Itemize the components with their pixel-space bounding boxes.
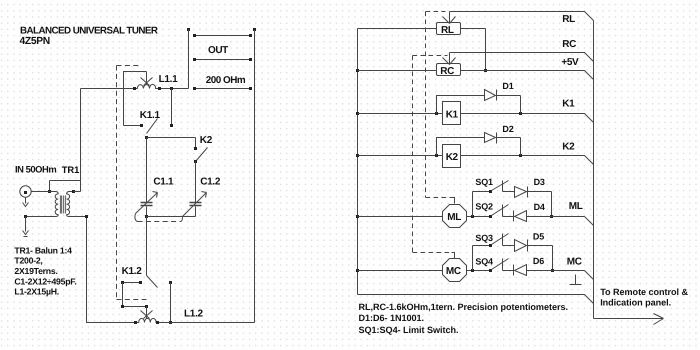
svg-text:SQ1:SQ4- Limit Switch.: SQ1:SQ4- Limit Switch. — [359, 325, 459, 335]
node L1.1 left — [133, 87, 136, 90]
inductor L1.2 — [136, 318, 158, 322]
switch K2 — [194, 147, 197, 150]
label C1.2 — [200, 176, 221, 187]
svg-text:TR1: TR1 — [62, 164, 79, 175]
label D4 — [534, 202, 545, 212]
svg-text:2X19Terns.: 2X19Terns. — [14, 266, 57, 276]
svg-text:RC: RC — [562, 39, 576, 50]
svg-text:+5V: +5V — [561, 57, 579, 68]
label K2 rail — [562, 142, 575, 153]
node L1.2 left — [134, 321, 137, 324]
wire MC rail bevel — [585, 271, 594, 280]
node TR1 primary top — [48, 190, 51, 193]
wire RL row left — [358, 28, 437, 30]
label D2 — [502, 124, 513, 134]
label L1.1 — [159, 74, 179, 85]
wire node to K2 — [147, 138, 196, 149]
svg-text:SQ1: SQ1 — [475, 177, 493, 187]
label D6 — [533, 256, 544, 266]
node bus-MC — [356, 269, 359, 272]
wire capacitor gang link — [135, 214, 138, 222]
label notes left — [14, 245, 76, 296]
node TR1 secondary top — [72, 190, 75, 193]
label SQ1 — [475, 177, 493, 187]
transformer TR1 primary winding — [26, 192, 59, 217]
wire MC right — [467, 270, 491, 272]
svg-text:K2: K2 — [200, 135, 213, 146]
svg-text:BALANCED UNIVERSAL TUNER: BALANCED UNIVERSAL TUNER — [20, 25, 158, 36]
inductor L1.1 — [135, 84, 160, 88]
switch K1.2 — [147, 276, 158, 288]
wire K1 rail — [461, 114, 594, 123]
source circle — [20, 186, 31, 197]
wire OUT ladder line 1 — [195, 35, 251, 37]
wire RL right to +5V — [461, 29, 486, 71]
svg-text:200 OHm: 200 OHm — [206, 75, 246, 86]
label TR1 — [62, 164, 79, 175]
wire D5 to MC rail — [552, 246, 554, 271]
switch SQ1 — [489, 190, 492, 193]
node C1 bottoms — [145, 215, 148, 218]
label L1.2 — [184, 308, 204, 319]
svg-text:D3: D3 — [534, 177, 545, 187]
label D3 — [534, 177, 545, 187]
svg-text:IN 50OHm: IN 50OHm — [15, 163, 56, 174]
node K1.2 right contact — [169, 281, 172, 284]
capacitor C1.1 — [141, 203, 153, 206]
wire K1.2 right contact down — [170, 283, 172, 323]
switch SQ4 — [489, 269, 492, 272]
label C1.1 — [153, 176, 174, 187]
label SQ2 — [475, 202, 493, 212]
wire RL rail — [450, 12, 594, 21]
svg-text:C1.2: C1.2 — [200, 176, 221, 187]
motor ML — [443, 205, 467, 228]
diode D6 — [503, 265, 585, 276]
label K2 — [200, 135, 213, 146]
node RL-5V — [484, 69, 487, 72]
potentiometer RL — [437, 23, 461, 35]
wire K2 to C1.2 — [195, 162, 197, 203]
node TR1 secondary bottom — [85, 215, 88, 218]
label MC rail — [567, 257, 582, 268]
svg-text:K2: K2 — [446, 152, 459, 163]
svg-text:D4: D4 — [534, 202, 545, 212]
wire SQ3 branch riser — [473, 246, 491, 271]
diode D5 — [503, 240, 553, 252]
wire K1.2 tap to L1.2 — [146, 307, 148, 319]
wire TR1 secondary top riser — [80, 89, 82, 192]
node K1 anode branch — [435, 112, 438, 115]
node wire junction above K1.1 — [170, 87, 173, 90]
svg-text:Indication panel.: Indication panel. — [600, 298, 671, 308]
diode D2 — [437, 133, 521, 156]
node OUT right terminal — [253, 28, 256, 31]
switch SQ2 — [489, 215, 492, 218]
svg-text:K2: K2 — [562, 142, 575, 153]
label RL rail — [562, 14, 575, 25]
wire OUT ladder line 2 — [195, 59, 251, 61]
node ML junction — [471, 215, 474, 218]
svg-text:SQ4: SQ4 — [475, 256, 493, 266]
svg-text:RL: RL — [441, 25, 454, 36]
svg-text:C1-2X12÷495pF.: C1-2X12÷495pF. — [14, 276, 76, 286]
node K1 cathode branch — [519, 112, 522, 115]
wire D3 to ML rail — [551, 192, 553, 217]
ground arrow primary bottom — [23, 217, 29, 237]
wire OUT right rail down to L1.2 — [254, 30, 256, 323]
relay coil K2 — [443, 145, 461, 168]
svg-text:D1: D1 — [502, 81, 513, 91]
label RC rail — [562, 39, 576, 50]
wire MC row left — [358, 270, 443, 272]
node D3-D4 — [550, 215, 553, 218]
svg-text:4Z5PN: 4Z5PN — [20, 36, 50, 47]
capacitor C1.2 — [190, 203, 202, 206]
wire source to TR1 — [32, 191, 50, 193]
svg-text:L1-2X15µH.: L1-2X15µH. — [14, 287, 59, 297]
svg-text:L1.2: L1.2 — [184, 308, 204, 319]
wire balanced line bottom — [87, 217, 255, 323]
wire L1.1 tap box — [124, 72, 147, 126]
transformer TR1 core — [61, 196, 66, 214]
svg-text:T200-2,: T200-2, — [14, 256, 42, 266]
wire remote bus — [593, 21, 595, 319]
label ML rail — [569, 201, 583, 212]
wire C1.1 down to K1.2 — [146, 217, 148, 276]
wire K1 row left — [358, 113, 443, 115]
node K1.1 output — [145, 136, 148, 139]
diode D3 — [503, 187, 552, 198]
ground symbol — [570, 275, 582, 285]
wire balanced line top (TR1 to L1.1) — [81, 88, 135, 90]
wire ML row left — [358, 216, 443, 218]
svg-text:K1.2: K1.2 — [122, 266, 143, 277]
svg-text:RL,RC-1.6kOHm,1tern. Precision: RL,RC-1.6kOHm,1tern. Precision potentiom… — [359, 302, 568, 312]
wire C1.1 slider arrow — [136, 192, 158, 214]
wire TR1 secondary top lead — [74, 191, 81, 193]
wire C1 bottom tie — [147, 216, 196, 218]
diode D1 — [437, 90, 521, 114]
wire relay K1 mechanical link (dashed) — [117, 66, 147, 300]
svg-text:ML: ML — [447, 212, 461, 223]
node K2 cathode branch — [519, 154, 522, 157]
label To Remote control — [600, 287, 688, 307]
svg-text:MC: MC — [446, 266, 461, 277]
node K2 anode branch — [435, 154, 438, 157]
svg-text:MC: MC — [567, 257, 582, 268]
svg-text:L1.1: L1.1 — [159, 74, 179, 85]
potentiometer RC — [437, 64, 461, 76]
svg-text:K1: K1 — [562, 99, 575, 110]
label IN 50OHm — [15, 163, 56, 174]
wire L1.2 slider arrow (X) — [141, 311, 153, 319]
node L1.1 right — [158, 87, 161, 90]
svg-text:D1:D6- 1N1001.: D1:D6- 1N1001. — [359, 313, 425, 323]
wire L1.1 slider arrow (X) — [141, 78, 153, 86]
wire drop to K1.1 right contact — [171, 89, 173, 126]
wire ground rail — [358, 295, 594, 304]
node bus-RC — [356, 69, 359, 72]
label K1.2 — [122, 266, 143, 277]
label 200 OHm — [206, 75, 246, 86]
svg-text:C1.1: C1.1 — [153, 176, 174, 187]
wire RC row left — [358, 70, 437, 72]
svg-text:To Remote control &: To Remote control & — [600, 287, 688, 297]
node bus-K1 — [356, 112, 359, 115]
switch K1.1 — [124, 125, 142, 127]
svg-text:RC: RC — [440, 66, 454, 77]
svg-text:SQ3: SQ3 — [475, 233, 493, 243]
wire ML motor link dashed — [426, 12, 452, 198]
svg-text:K1: K1 — [446, 109, 459, 120]
svg-text:D6: D6 — [533, 256, 544, 266]
transformer TR1 secondary winding — [67, 192, 87, 217]
motor MC — [443, 259, 467, 282]
wire C1.2 slider arrow — [183, 192, 207, 217]
ground arrow below source — [23, 198, 29, 207]
node L1.2 right — [156, 321, 159, 324]
switch SQ3 — [489, 244, 492, 247]
wire node to C1.1 — [146, 138, 148, 203]
wire RL wiper arrow — [443, 12, 456, 24]
wire ML right — [467, 216, 491, 218]
node D5-D6 — [551, 269, 554, 272]
wire K2 rail — [461, 156, 594, 165]
node OUT left terminal — [187, 28, 190, 31]
label D5 — [533, 231, 544, 241]
svg-text:D2: D2 — [502, 124, 513, 134]
label SQ4 — [475, 256, 493, 266]
node bus-K2 — [356, 154, 359, 157]
wire MC motor link dashed — [413, 56, 452, 253]
svg-text:OUT: OUT — [208, 45, 228, 56]
svg-text:K1.1: K1.1 — [140, 110, 161, 121]
wire +5V left bus — [357, 29, 359, 295]
label K1.1 — [140, 110, 161, 121]
wire TR1 primary top link — [50, 181, 81, 192]
node bus-ML — [356, 215, 359, 218]
wire remote arrow — [594, 314, 664, 325]
node MC junction — [471, 269, 474, 272]
wire ML rail bevel — [585, 217, 594, 226]
diode D4 — [503, 211, 585, 222]
wire RC rail — [450, 53, 594, 62]
label notes right — [359, 302, 568, 335]
wire RC wiper arrow — [443, 53, 456, 65]
wire OUT ladder line 3 — [195, 88, 251, 90]
relay coil K1 — [443, 102, 461, 125]
svg-text:TR1- Balun 1:4: TR1- Balun 1:4 — [14, 245, 72, 255]
wire K1.2 left loop — [123, 283, 147, 307]
label +5V rail — [561, 57, 579, 68]
label D1 — [502, 81, 513, 91]
svg-text:D5: D5 — [533, 231, 544, 241]
label SQ3 — [475, 233, 493, 243]
wire +5V rail — [461, 71, 594, 80]
wire K2 row left — [358, 155, 443, 157]
wire L1.1 right segment — [160, 88, 189, 90]
wire SQ1 branch riser — [473, 192, 491, 217]
svg-text:SQ2: SQ2 — [475, 202, 493, 212]
label K1 rail — [562, 99, 575, 110]
wire OUT left rail — [188, 30, 190, 89]
svg-text:RL: RL — [562, 14, 575, 25]
svg-text:ML: ML — [569, 201, 583, 212]
node TR1 primary bottom — [24, 215, 27, 218]
label OUT — [208, 45, 228, 56]
title text — [20, 25, 158, 47]
